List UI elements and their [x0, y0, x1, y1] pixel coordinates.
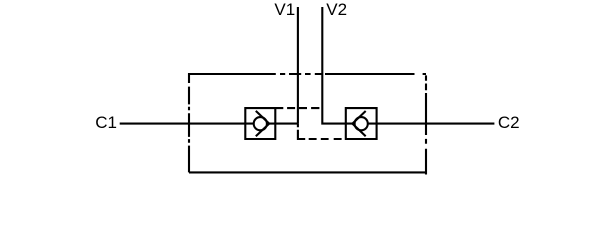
- check valve CV1 ball: [254, 117, 267, 130]
- enclosure bottom edge (dash-dot boundary): [189, 171, 425, 173]
- check valve CV2 ball: [355, 117, 368, 130]
- enclosure top edge (dash-dot boundary): [188, 73, 426, 75]
- check valve CV2 seat: [352, 111, 365, 136]
- pilot line from V1 to CV2 (dashed): [298, 124, 342, 139]
- svg-text:V1: V1: [274, 0, 295, 19]
- check valve CV1 box: [245, 108, 275, 139]
- wire V1 vertical line: [297, 7, 299, 124]
- svg-text:C2: C2: [498, 113, 520, 132]
- enclosure left edge (dash-dot boundary): [188, 73, 190, 172]
- wire V2 vertical line and main line to C2: [322, 7, 494, 124]
- wire C1 main line to node at V1: [120, 123, 298, 125]
- pilot line from V2 to CV1 (dashed): [275, 107, 319, 109]
- check valve CV1 seat: [256, 111, 269, 136]
- check valve CV2 box: [346, 108, 377, 139]
- enclosure right edge (dash-dot boundary): [425, 75, 427, 174]
- svg-text:C1: C1: [95, 113, 117, 132]
- svg-text:V2: V2: [326, 0, 347, 19]
